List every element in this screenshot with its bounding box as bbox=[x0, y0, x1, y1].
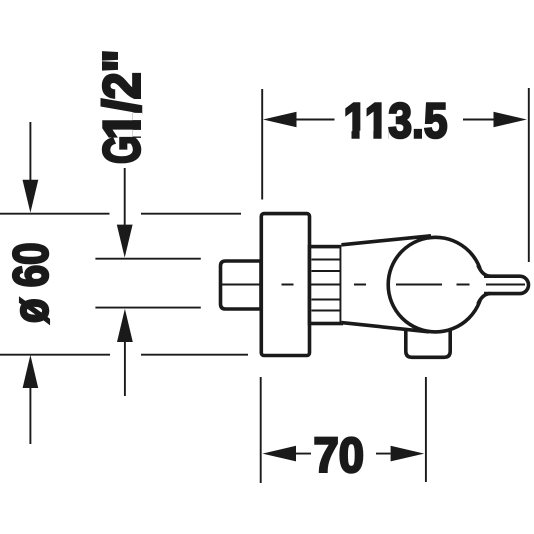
svg-text:1/2": 1/2" bbox=[93, 50, 151, 140]
svg-text:70: 70 bbox=[314, 428, 365, 483]
svg-text:ø 60: ø 60 bbox=[4, 243, 59, 324]
svg-text:113.5: 113.5 bbox=[344, 94, 448, 149]
